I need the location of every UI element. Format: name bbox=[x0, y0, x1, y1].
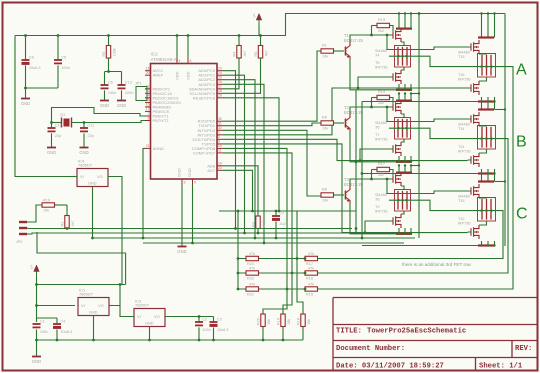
wire T13 drain to pads bbox=[479, 53, 487, 56]
wire T16 source return bbox=[362, 101, 478, 103]
wire INT0 base C bbox=[223, 130, 322, 196]
wire T5 drain bbox=[401, 67, 404, 70]
wire row R21 bbox=[238, 288, 320, 290]
svg-text:IRF736: IRF736 bbox=[458, 78, 470, 82]
wire T15 drain to pads bbox=[479, 197, 487, 200]
svg-text:10k: 10k bbox=[43, 209, 49, 213]
svg-text:C7: C7 bbox=[279, 211, 284, 215]
capacitor C1 bbox=[33, 323, 41, 325]
svg-text:AGND: AGND bbox=[153, 146, 165, 151]
svg-text:1: 1 bbox=[218, 131, 220, 135]
svg-text:VO: VO bbox=[98, 303, 104, 308]
svg-text:10u6,3: 10u6,3 bbox=[217, 328, 229, 332]
svg-text:R21: R21 bbox=[247, 293, 254, 297]
regulator IC3 7805DT bbox=[134, 309, 165, 327]
wire IC1 VO stub bbox=[109, 305, 112, 307]
svg-text:T21: T21 bbox=[458, 145, 465, 149]
transistor T16 N-FET right bbox=[471, 81, 479, 95]
wire phase B loop bbox=[318, 139, 509, 273]
svg-text:100n: 100n bbox=[40, 330, 48, 334]
transistor T3 BC817-25 bbox=[345, 191, 347, 200]
wire T8 source bbox=[396, 172, 412, 174]
resistor R22 47k bbox=[246, 271, 259, 275]
wire branch gate C left FET bbox=[364, 231, 367, 234]
svg-text:C3: C3 bbox=[217, 317, 222, 321]
svg-text:GND: GND bbox=[89, 311, 98, 315]
svg-text:25: 25 bbox=[218, 76, 222, 80]
svg-text:C11: C11 bbox=[87, 123, 94, 127]
wire rail drop right B C bbox=[504, 14, 506, 247]
svg-text:C4: C4 bbox=[60, 319, 65, 323]
svg-text:GND: GND bbox=[32, 359, 41, 364]
capacitor C6 bbox=[104, 72, 106, 86]
svg-text:COMP-/PD7: COMP-/PD7 bbox=[193, 150, 216, 155]
supply arrow V+ bottom bbox=[34, 265, 40, 272]
connector JP2 bbox=[19, 221, 27, 223]
wire AD3 net bbox=[223, 84, 265, 243]
svg-text:47k: 47k bbox=[249, 252, 255, 256]
IC2 bottom pins GND bbox=[181, 179, 183, 185]
wire T16 drain bbox=[479, 77, 487, 81]
svg-text:R15: R15 bbox=[306, 293, 313, 297]
wire COMP+ net bbox=[223, 148, 288, 314]
ground bottom bbox=[32, 356, 41, 358]
resistor R8 base bbox=[321, 193, 334, 197]
capacitor C7 bbox=[275, 211, 277, 216]
wire T8 drain to pads bbox=[401, 186, 404, 190]
IC2 right pins bbox=[217, 70, 223, 72]
wire left rail down bbox=[15, 36, 71, 177]
wire T3 emitter bbox=[350, 204, 356, 234]
svg-text:T14: T14 bbox=[458, 127, 465, 131]
svg-text:2k2: 2k2 bbox=[378, 173, 384, 177]
svg-text:RESET/PC6: RESET/PC6 bbox=[193, 95, 216, 100]
svg-text:IRF736: IRF736 bbox=[458, 150, 470, 154]
svg-text:17: 17 bbox=[146, 107, 150, 111]
svg-text:GND: GND bbox=[187, 168, 192, 177]
wire PD4 gate low B bbox=[223, 139, 468, 160]
svg-text:T5: T5 bbox=[375, 61, 379, 65]
svg-text:20: 20 bbox=[146, 71, 150, 75]
op-amp IC2 ATMEGA8 box bbox=[151, 64, 218, 180]
wire IC2 GND pin bbox=[181, 185, 183, 247]
IC2 top pins VDD bbox=[176, 58, 178, 64]
svg-text:22p: 22p bbox=[87, 134, 93, 138]
svg-text:JP1: JP1 bbox=[135, 82, 142, 86]
svg-text:R9: R9 bbox=[102, 52, 106, 57]
wire bus gnd row 1 bbox=[28, 233, 410, 234]
svg-text:9: 9 bbox=[218, 140, 220, 144]
wire T4 source bbox=[396, 28, 412, 30]
svg-text:47k: 47k bbox=[308, 283, 314, 287]
wire T6 drain to pads bbox=[401, 114, 404, 118]
svg-text:100n: 100n bbox=[108, 91, 116, 95]
svg-text:VO: VO bbox=[97, 174, 103, 179]
capacitor C3 bbox=[213, 317, 215, 323]
svg-text:100n: 100n bbox=[125, 91, 133, 95]
svg-text:T7: T7 bbox=[375, 133, 379, 137]
transistor T21 N-FET right bbox=[471, 153, 479, 167]
resistor R14 2k2 bbox=[371, 98, 373, 108]
svg-text:11: 11 bbox=[218, 149, 222, 153]
wire bus top link bbox=[37, 232, 126, 285]
svg-text:16: 16 bbox=[146, 103, 150, 107]
resistor R2 bbox=[66, 205, 68, 216]
svg-text:IC2: IC2 bbox=[151, 52, 159, 57]
svg-text:IRF736: IRF736 bbox=[375, 210, 387, 214]
svg-text:R16: R16 bbox=[306, 277, 313, 281]
capacitor C13 bbox=[121, 72, 123, 86]
wire T14 gate net bbox=[386, 106, 389, 109]
svg-text:15k: 15k bbox=[267, 319, 271, 325]
svg-text:R19: R19 bbox=[276, 318, 280, 325]
wire T13 source pins bbox=[481, 14, 483, 38]
svg-text:7805DT: 7805DT bbox=[135, 303, 150, 308]
wire T5 source pins bbox=[398, 84, 400, 90]
svg-text:100k: 100k bbox=[112, 48, 116, 56]
resistor R17 47k bbox=[305, 256, 318, 260]
svg-text:23: 23 bbox=[218, 67, 222, 71]
svg-text:22: 22 bbox=[218, 166, 222, 170]
wire to IC1 VO bbox=[112, 285, 120, 306]
svg-text:7805DT: 7805DT bbox=[78, 163, 93, 168]
pads T14 package bbox=[478, 126, 496, 150]
svg-text:100n: 100n bbox=[202, 328, 210, 332]
svg-text:R2: R2 bbox=[60, 222, 64, 227]
svg-text:T15: T15 bbox=[458, 199, 465, 203]
svg-text:29: 29 bbox=[218, 94, 222, 98]
pads T8 package bbox=[395, 190, 411, 212]
resistor R19 bbox=[42, 203, 55, 207]
wire T12 source return bbox=[362, 245, 478, 247]
svg-text:BC817-25: BC817-25 bbox=[344, 182, 364, 187]
wire T7 drain bbox=[401, 139, 404, 142]
transistor T7 N-FET bbox=[393, 142, 401, 156]
svg-text:31: 31 bbox=[218, 122, 222, 126]
pads T15 package bbox=[478, 198, 496, 222]
resistor R13 2k2 bbox=[371, 26, 373, 36]
svg-text:10k: 10k bbox=[322, 199, 328, 203]
svg-text:28: 28 bbox=[218, 89, 222, 93]
resistor R17 2k2 bbox=[371, 170, 373, 180]
regulator IC4 7805DT bbox=[77, 169, 108, 187]
wire IC3 VO bbox=[165, 316, 214, 318]
svg-text:5: 5 bbox=[194, 181, 196, 185]
svg-text:A: A bbox=[516, 62, 527, 79]
svg-text:4: 4 bbox=[179, 59, 181, 63]
wire T6 source bbox=[396, 99, 412, 101]
node rail pads A right bbox=[480, 12, 482, 14]
svg-text:GND: GND bbox=[145, 322, 154, 326]
svg-text:R19: R19 bbox=[43, 198, 50, 202]
svg-text:10k: 10k bbox=[322, 55, 328, 59]
svg-text:18: 18 bbox=[146, 67, 150, 71]
wire T9 source pins bbox=[398, 228, 400, 234]
wire COMP- net bbox=[223, 153, 293, 314]
svg-text:PB7/XT2: PB7/XT2 bbox=[153, 118, 170, 123]
ground IC2 bbox=[178, 246, 187, 248]
svg-text:V+: V+ bbox=[30, 265, 34, 270]
svg-text:Document Number:: Document Number: bbox=[336, 345, 405, 353]
svg-text:GND: GND bbox=[21, 101, 30, 106]
wire T5 source return bbox=[356, 89, 396, 91]
connector JP1 box bbox=[136, 87, 147, 101]
svg-text:R1: R1 bbox=[322, 44, 327, 48]
svg-text:100n: 100n bbox=[61, 66, 69, 70]
svg-text:10u6,3: 10u6,3 bbox=[60, 330, 72, 334]
svg-text:47k: 47k bbox=[308, 252, 314, 256]
resistor R4 bbox=[238, 34, 241, 37]
resistor R16 47k bbox=[305, 271, 318, 275]
svg-text:VI: VI bbox=[80, 174, 84, 179]
wire INT1 gate low A bbox=[223, 88, 468, 135]
crystal Q1 bbox=[52, 122, 62, 124]
svg-text:T8: T8 bbox=[375, 198, 379, 202]
wire T21 drain bbox=[479, 149, 487, 153]
capacitor C2 bbox=[198, 317, 200, 323]
resistor R23 47k bbox=[246, 256, 259, 260]
wire AD2 net bbox=[223, 80, 256, 238]
svg-text:IRF736: IRF736 bbox=[375, 66, 387, 70]
svg-text:R22: R22 bbox=[247, 277, 254, 281]
capacitor C12 bbox=[50, 121, 53, 124]
wire third comparator drop bbox=[297, 211, 303, 314]
wire TXD base B bbox=[223, 123, 322, 126]
svg-text:R18: R18 bbox=[296, 318, 300, 325]
resistor R19b 15k bbox=[281, 314, 285, 327]
svg-text:4k7: 4k7 bbox=[243, 50, 247, 56]
wire T9 drain bbox=[401, 211, 404, 214]
resistor R9 bbox=[107, 34, 110, 37]
svg-text:47k: 47k bbox=[308, 267, 314, 271]
svg-text:2: 2 bbox=[218, 135, 220, 139]
svg-text:R4: R4 bbox=[232, 52, 236, 57]
transistor T1 BC817-25 bbox=[345, 47, 347, 56]
capacitor C4 bbox=[56, 318, 58, 324]
wire VCC rail bbox=[15, 35, 261, 37]
wire IC3 VI link bbox=[120, 306, 134, 317]
wire R9 node bbox=[105, 71, 122, 73]
svg-text:there is an additional 3rd FET: there is an additional 3rd FET row bbox=[402, 262, 472, 267]
transistor T2 BC817-25 bbox=[345, 119, 347, 128]
resistor R5 bbox=[259, 34, 262, 37]
svg-text:Q1: Q1 bbox=[60, 113, 65, 117]
pads T4 package bbox=[395, 46, 411, 68]
wire IC1 GND bbox=[93, 316, 95, 341]
wire XTAL2 net bbox=[72, 121, 145, 123]
wire T12 source pins bbox=[481, 241, 483, 246]
wire branch gate A left FET bbox=[357, 87, 360, 90]
svg-text:19: 19 bbox=[218, 162, 222, 166]
transistor T6 P-FET bbox=[393, 100, 401, 114]
svg-text:R6: R6 bbox=[322, 116, 327, 120]
svg-text:V+: V+ bbox=[253, 13, 257, 18]
wire phase A loop bbox=[318, 67, 514, 289]
wire R17 to gate bbox=[390, 170, 394, 176]
wire T7 source return bbox=[356, 161, 396, 163]
svg-text:30: 30 bbox=[218, 117, 222, 121]
resistor R20 15k bbox=[261, 314, 265, 327]
svg-text:GND: GND bbox=[88, 182, 97, 186]
svg-text:GND: GND bbox=[177, 168, 182, 177]
svg-text:VDD: VDD bbox=[175, 71, 180, 80]
svg-text:C: C bbox=[516, 206, 528, 223]
svg-text:7805DT: 7805DT bbox=[79, 292, 94, 297]
wire bus jp2 row bbox=[28, 228, 352, 230]
svg-text:Si4480: Si4480 bbox=[458, 51, 470, 55]
wire RESET net bbox=[223, 98, 280, 211]
resistor R3 bbox=[256, 216, 260, 229]
svg-text:7: 7 bbox=[148, 112, 150, 116]
svg-text:6: 6 bbox=[190, 59, 192, 63]
wire row R22 bbox=[238, 272, 320, 274]
svg-text:10k: 10k bbox=[322, 127, 328, 131]
resistor R15 47k bbox=[305, 287, 318, 291]
svg-text:T9: T9 bbox=[375, 205, 379, 209]
svg-text:ATMEGA8-AI: ATMEGA8-AI bbox=[151, 57, 178, 62]
svg-text:TowerPro25aEscSchematic: TowerPro25aEscSchematic bbox=[367, 328, 466, 336]
svg-text:13: 13 bbox=[146, 89, 150, 93]
wire row R23 bbox=[238, 258, 320, 260]
svg-text:R23: R23 bbox=[247, 262, 254, 266]
wire T2 emitter bbox=[350, 132, 356, 162]
svg-text:GND: GND bbox=[177, 249, 186, 254]
wire T21 source pins bbox=[481, 169, 483, 174]
transistor T5 N-FET bbox=[393, 70, 401, 84]
wire IC3 GND bbox=[149, 327, 151, 341]
svg-text:BC817-25: BC817-25 bbox=[344, 110, 364, 115]
node rail pads A left bbox=[398, 12, 400, 14]
svg-text:47k: 47k bbox=[249, 283, 255, 287]
wire phase node left bbox=[389, 199, 414, 201]
transistor T14 P-FET right bbox=[471, 112, 479, 126]
svg-text:8: 8 bbox=[148, 116, 150, 120]
wire branch gate B left FET bbox=[359, 159, 362, 162]
transistor T12 N-FET right bbox=[471, 225, 479, 239]
wire T12 drain bbox=[479, 221, 487, 225]
svg-text:T12: T12 bbox=[458, 217, 465, 221]
svg-text:R8: R8 bbox=[322, 188, 327, 192]
wire comparator bus vertical bbox=[237, 211, 239, 289]
svg-text:GND: GND bbox=[117, 103, 126, 108]
svg-text:Si4480: Si4480 bbox=[375, 121, 387, 125]
svg-text:AD7: AD7 bbox=[207, 168, 216, 173]
wire phase node left bbox=[389, 55, 414, 57]
svg-text:AREF: AREF bbox=[153, 73, 164, 78]
svg-text:Si4480: Si4480 bbox=[458, 195, 470, 199]
transistor T13 P-FET right bbox=[471, 40, 479, 54]
svg-text:IRF736: IRF736 bbox=[458, 222, 470, 226]
svg-text:VDD: VDD bbox=[186, 71, 191, 80]
svg-text:22p: 22p bbox=[55, 134, 61, 138]
wire R13 to gate bbox=[390, 26, 394, 32]
resistor R6 base bbox=[321, 121, 334, 125]
svg-text:4k7: 4k7 bbox=[262, 221, 266, 227]
ground under C12 bbox=[47, 147, 56, 149]
svg-text:26: 26 bbox=[218, 80, 222, 84]
svg-text:2k2: 2k2 bbox=[378, 101, 384, 105]
wire C5 to C8 branch bbox=[26, 87, 59, 89]
resistor R21 47k bbox=[246, 287, 259, 291]
svg-text:24: 24 bbox=[218, 71, 222, 75]
wire T15 gate net bbox=[386, 178, 389, 181]
svg-text:R17: R17 bbox=[378, 162, 385, 166]
wire T14 source pins bbox=[481, 102, 483, 110]
svg-text:Si4480: Si4480 bbox=[458, 123, 470, 127]
svg-text:4k7: 4k7 bbox=[71, 220, 75, 226]
ground under C13 bbox=[117, 100, 126, 102]
wire T14 drain to pads bbox=[479, 125, 487, 128]
svg-text:GND: GND bbox=[100, 103, 109, 108]
wire phase node right bbox=[414, 128, 497, 138]
wire AD1 net bbox=[223, 75, 245, 233]
svg-text:Sheet: 1/1: Sheet: 1/1 bbox=[479, 363, 523, 371]
svg-text:VI: VI bbox=[137, 314, 141, 319]
svg-text:21: 21 bbox=[146, 144, 150, 148]
wire AD7 net bbox=[223, 170, 253, 211]
transistor T15 P-FET right bbox=[471, 184, 479, 198]
wire IC4 VI bbox=[71, 176, 77, 178]
wire phase C loop bbox=[318, 211, 504, 259]
wire T9 source return bbox=[356, 233, 396, 235]
wire T3 collector bbox=[350, 179, 390, 186]
svg-text:GND: GND bbox=[79, 150, 88, 155]
transistor T9 N-FET bbox=[393, 214, 401, 228]
svg-text:2k2: 2k2 bbox=[378, 29, 384, 33]
svg-text:3: 3 bbox=[184, 181, 186, 185]
wire v+ node bbox=[35, 283, 38, 286]
wire T1 emitter bbox=[350, 60, 356, 90]
svg-text:C12: C12 bbox=[55, 123, 62, 127]
wire source return verticals bbox=[355, 90, 357, 233]
wire AD6 net bbox=[223, 166, 259, 216]
svg-text:T4: T4 bbox=[375, 54, 379, 58]
capacitor C11 bbox=[83, 121, 86, 124]
svg-text:32: 32 bbox=[218, 126, 222, 130]
svg-text:R14: R14 bbox=[378, 90, 385, 94]
wire ground rail bbox=[37, 339, 304, 341]
ground under C11 bbox=[80, 147, 89, 149]
svg-text:R17: R17 bbox=[306, 262, 313, 266]
svg-text:15k: 15k bbox=[307, 319, 311, 325]
svg-text:Si4480: Si4480 bbox=[375, 193, 387, 197]
resistor R18 15k bbox=[301, 314, 305, 327]
wire XTAL1 net bbox=[52, 108, 146, 123]
capacitor C5 bbox=[57, 34, 60, 37]
wire IC4 GND bbox=[92, 187, 94, 239]
svg-text:T6: T6 bbox=[375, 126, 379, 130]
transistor T8 P-FET bbox=[393, 172, 401, 186]
svg-text:R5: R5 bbox=[254, 52, 258, 57]
wire mid node bbox=[219, 210, 356, 212]
title block box bbox=[333, 298, 537, 372]
svg-text:C1: C1 bbox=[40, 319, 45, 323]
svg-text:Si4480: Si4480 bbox=[375, 49, 387, 53]
svg-text:C5: C5 bbox=[61, 55, 66, 59]
wire to IC1 VI bbox=[37, 305, 76, 307]
wire IC2 GND pin 2 bbox=[192, 185, 194, 244]
wire AGND bbox=[143, 148, 145, 238]
svg-text:R3: R3 bbox=[251, 222, 255, 227]
wire T21 source return bbox=[362, 173, 478, 175]
IC2 left pins bbox=[145, 70, 151, 72]
svg-text:REV:: REV: bbox=[515, 345, 532, 353]
wire phase node right bbox=[414, 200, 497, 210]
wire T7 source pins bbox=[398, 156, 400, 162]
wire rail drop left B C bbox=[418, 14, 420, 239]
svg-text:4k7: 4k7 bbox=[264, 50, 268, 56]
regulator IC1 7805DT bbox=[78, 298, 109, 316]
